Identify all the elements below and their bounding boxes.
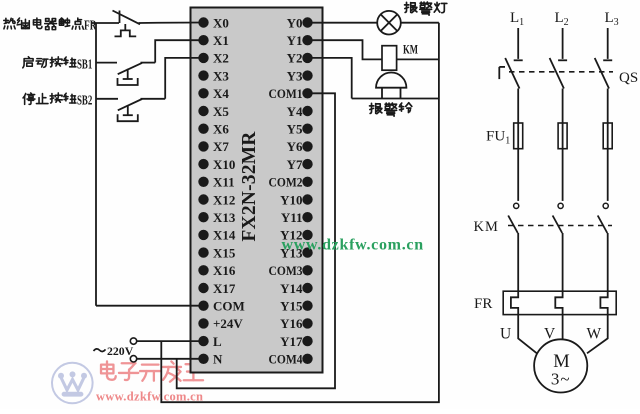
terminal Y1 bbox=[287, 33, 313, 48]
pushbutton SB2 actuator bbox=[118, 105, 138, 121]
svg-text:SB1: SB1 bbox=[77, 56, 92, 71]
wire QS pole 2 to fuse bbox=[562, 89, 564, 124]
wire X1 drop bbox=[155, 40, 203, 62]
wire COM row bbox=[96, 305, 204, 307]
wire common left vertical bbox=[95, 23, 97, 306]
contactor KM contact pole 1 bbox=[508, 203, 519, 291]
watermark logo circle W bbox=[52, 363, 93, 404]
contactor KM contact pole 2 bbox=[553, 203, 564, 291]
thermal relay FR heater phase 3 bbox=[600, 291, 607, 314]
thermal contact FR blade bbox=[113, 11, 141, 25]
svg-text:Y7: Y7 bbox=[287, 157, 303, 172]
svg-text:X4: X4 bbox=[213, 86, 229, 101]
label qi dong an niu SB1 bbox=[23, 56, 93, 71]
svg-text:Y5: Y5 bbox=[287, 122, 303, 137]
svg-text:X13: X13 bbox=[213, 210, 236, 225]
svg-text:Y2: Y2 bbox=[287, 51, 303, 66]
wire QS pole 3 to fuse bbox=[607, 89, 609, 124]
svg-text:X11: X11 bbox=[213, 175, 235, 190]
terminal X2 bbox=[198, 51, 229, 66]
terminal X3 bbox=[198, 68, 229, 83]
label ting zhi an niu SB2 bbox=[23, 93, 92, 108]
pushbutton SB1 blade bbox=[118, 63, 142, 74]
switch QS handle bbox=[499, 67, 505, 79]
svg-text:FR: FR bbox=[474, 296, 492, 312]
svg-text:COM2: COM2 bbox=[269, 175, 303, 190]
contactor KM linkage dashed bbox=[508, 225, 612, 227]
svg-text:COM4: COM4 bbox=[269, 352, 303, 367]
thermal overload relay FR box bbox=[503, 291, 616, 314]
svg-text:Y14: Y14 bbox=[280, 281, 303, 296]
terminal X7 bbox=[198, 139, 229, 154]
svg-text:Y11: Y11 bbox=[281, 210, 303, 225]
switch QS pole 1 fixed bar bbox=[514, 59, 523, 61]
svg-text:X14: X14 bbox=[213, 228, 236, 243]
switch QS linkage dashed bbox=[509, 71, 613, 73]
svg-text:COM3: COM3 bbox=[269, 263, 303, 278]
wire SB1 row right segment bbox=[141, 62, 156, 64]
terminal Y13 bbox=[280, 245, 313, 260]
label bao jing deng bbox=[405, 2, 447, 15]
switch QS pole 1 blade bbox=[505, 58, 519, 89]
svg-text:Y16: Y16 bbox=[280, 316, 303, 331]
wire FR to motor U bbox=[518, 315, 537, 354]
svg-text:KM: KM bbox=[474, 219, 499, 235]
svg-text:X1: X1 bbox=[213, 33, 229, 48]
terminal X5 bbox=[198, 104, 229, 119]
terminal L bbox=[198, 334, 222, 349]
wire fuse to KM contact phase 1 bbox=[517, 149, 519, 201]
terminal Y17 bbox=[280, 334, 313, 349]
svg-text:3~: 3~ bbox=[551, 370, 571, 389]
alarm bell bbox=[376, 73, 406, 99]
terminal +24V bbox=[198, 316, 243, 331]
svg-text:X0: X0 bbox=[213, 15, 229, 30]
svg-text:X5: X5 bbox=[213, 104, 229, 119]
svg-text:N: N bbox=[213, 352, 223, 367]
wire fuse to KM contact phase 2 bbox=[562, 149, 564, 201]
terminal Y14 bbox=[280, 281, 313, 296]
wire X2 drop bbox=[165, 58, 203, 99]
svg-text:X10: X10 bbox=[213, 157, 235, 172]
wire N phase loop to COM1 bbox=[177, 93, 335, 388]
wire L phase loop bottom bbox=[161, 23, 439, 403]
wire SB2 row left segment bbox=[96, 98, 118, 100]
wire FR to motor W bbox=[587, 315, 608, 354]
svg-text:X7: X7 bbox=[213, 139, 229, 154]
wire KM coil to right bus bbox=[397, 58, 439, 60]
wire X0 row left segment bbox=[91, 22, 119, 24]
wire N supply to N terminal bbox=[137, 358, 204, 360]
terminal Y4 bbox=[287, 104, 313, 119]
svg-text:COM1: COM1 bbox=[269, 86, 303, 101]
terminal COM1 bbox=[269, 86, 313, 101]
terminal X4 bbox=[198, 86, 229, 101]
terminal X11 bbox=[198, 175, 234, 190]
svg-text:KM: KM bbox=[403, 43, 418, 57]
terminal X6 bbox=[198, 122, 229, 137]
thermal contact FR fixed tick bbox=[119, 11, 121, 24]
svg-text:X2: X2 bbox=[213, 51, 229, 66]
svg-text:X15: X15 bbox=[213, 245, 236, 260]
terminal X13 bbox=[198, 210, 236, 225]
svg-text:QS: QS bbox=[619, 70, 638, 86]
thermal relay FR actuator symbol bbox=[115, 24, 137, 36]
wire bell bottom to right bus bbox=[352, 98, 439, 100]
terminal COM2 bbox=[269, 175, 313, 190]
wire supply stub L1 bbox=[517, 28, 519, 59]
wire L supply to L terminal bbox=[137, 340, 204, 342]
svg-text:www.dzkfw.com.cn: www.dzkfw.com.cn bbox=[282, 237, 424, 254]
terminal X1 bbox=[198, 33, 229, 48]
wire Y2 to bell bbox=[308, 58, 352, 99]
svg-text:X3: X3 bbox=[213, 68, 229, 83]
pushbutton SB2 blade bbox=[118, 99, 142, 110]
terminal X10 bbox=[198, 157, 235, 172]
thermal relay FR heater phase 2 bbox=[555, 291, 562, 314]
terminal N bbox=[198, 352, 223, 367]
svg-text:Y10: Y10 bbox=[280, 192, 302, 207]
terminal Y3 bbox=[287, 68, 313, 83]
terminal Y5 bbox=[287, 122, 313, 137]
terminal Y12 bbox=[280, 228, 313, 243]
terminal Y0 bbox=[287, 15, 313, 30]
fuse FU1 phase 2 bbox=[558, 123, 567, 149]
svg-text:X12: X12 bbox=[213, 192, 235, 207]
terminal Y16 bbox=[280, 316, 313, 331]
wire FR to motor V bbox=[562, 315, 564, 339]
terminal Y2 bbox=[287, 51, 313, 66]
switch QS pole 3 fixed bar bbox=[603, 59, 612, 61]
terminal Y15 bbox=[280, 299, 313, 314]
svg-text:W: W bbox=[587, 326, 602, 343]
alarm lamp bbox=[377, 11, 401, 35]
switch QS pole 2 fixed bar bbox=[558, 59, 567, 61]
wire supply stub L2 bbox=[562, 28, 564, 59]
terminal COM bbox=[198, 299, 244, 314]
fuse FU1 phase 1 bbox=[514, 123, 523, 149]
wire SB1 row left segment bbox=[96, 62, 117, 64]
svg-text:Y17: Y17 bbox=[280, 334, 303, 349]
svg-text:Y0: Y0 bbox=[287, 15, 303, 30]
terminal Y6 bbox=[287, 139, 313, 154]
terminal COM3 bbox=[269, 263, 313, 278]
watermark text dianzikaifawang pink bbox=[101, 361, 203, 381]
terminal circle L supply bbox=[130, 338, 136, 344]
svg-text:Y15: Y15 bbox=[280, 299, 303, 314]
terminal circle N supply bbox=[130, 356, 136, 362]
motor M 3ph bbox=[534, 339, 587, 392]
label ~220V bbox=[94, 344, 134, 358]
terminal Y11 bbox=[281, 210, 313, 225]
switch QS pole 2 blade bbox=[550, 58, 564, 89]
wire lamp to right bus bbox=[401, 22, 439, 24]
terminal X12 bbox=[198, 192, 235, 207]
thermal relay FR heater phase 1 bbox=[511, 291, 518, 314]
terminal X0 bbox=[198, 15, 229, 30]
PLC module FX2N-32MR box bbox=[191, 8, 323, 373]
svg-text:COM: COM bbox=[213, 299, 245, 314]
svg-text:Y6: Y6 bbox=[287, 139, 303, 154]
svg-text:U: U bbox=[500, 326, 511, 343]
terminal X17 bbox=[198, 281, 236, 296]
svg-text:X6: X6 bbox=[213, 122, 229, 137]
svg-text:Y3: Y3 bbox=[287, 68, 303, 83]
svg-text:+24V: +24V bbox=[213, 316, 243, 331]
terminal X16 bbox=[198, 263, 236, 278]
svg-text:FX2N-32MR: FX2N-32MR bbox=[239, 131, 260, 242]
wire fuse to KM contact phase 3 bbox=[607, 149, 609, 201]
contactor coil KM bbox=[382, 46, 397, 70]
terminal X15 bbox=[198, 245, 236, 260]
contactor KM contact pole 3 bbox=[598, 203, 609, 291]
wire Y0 to lamp bbox=[308, 22, 378, 24]
label re ji dian qi chu dian FR bbox=[4, 17, 97, 32]
terminal COM4 bbox=[269, 352, 313, 367]
svg-text:Y1: Y1 bbox=[287, 33, 303, 48]
fuse FU1 phase 3 bbox=[603, 123, 612, 149]
wire X0 row right segment to X0 bbox=[139, 22, 204, 25]
svg-text:Y4: Y4 bbox=[287, 104, 303, 119]
svg-text:X16: X16 bbox=[213, 263, 236, 278]
wire QS pole 1 to fuse bbox=[517, 89, 519, 124]
wire SB2 row right segment bbox=[141, 98, 166, 100]
label bao jing ling bbox=[370, 103, 412, 116]
switch QS pole 3 blade bbox=[595, 58, 609, 89]
svg-text:220V: 220V bbox=[107, 344, 134, 358]
terminal Y10 bbox=[280, 192, 313, 207]
pushbutton SB1 actuator bbox=[118, 69, 138, 85]
terminal Y7 bbox=[287, 157, 313, 172]
wire Y1 to KM coil bbox=[308, 40, 383, 59]
terminal X14 bbox=[198, 228, 236, 243]
svg-text:X17: X17 bbox=[213, 281, 236, 296]
svg-text:SB2: SB2 bbox=[77, 93, 92, 108]
svg-text:L: L bbox=[213, 334, 222, 349]
svg-text:FR: FR bbox=[84, 17, 97, 32]
wire supply stub L3 bbox=[607, 28, 609, 59]
